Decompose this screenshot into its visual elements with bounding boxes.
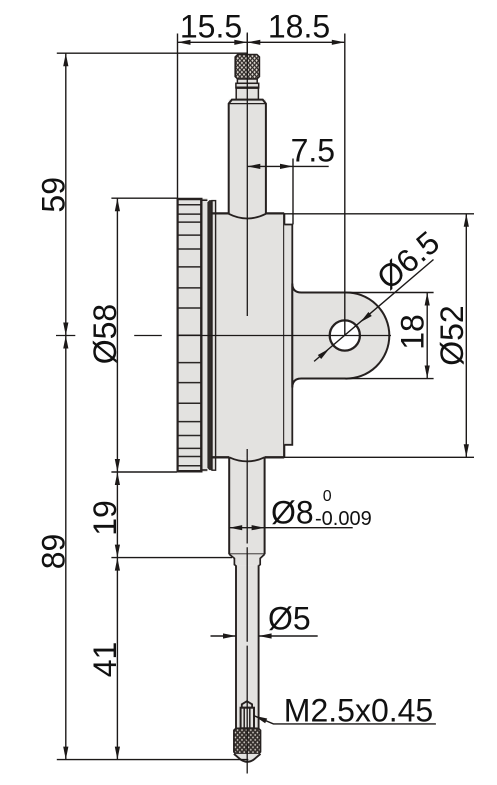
mounting lug with fillets xyxy=(292,284,389,388)
horizontal centerline xyxy=(56,335,391,337)
bezel dark rim strip xyxy=(207,200,212,470)
cap neck xyxy=(237,79,257,83)
svg-text:19: 19 xyxy=(87,500,123,536)
lug hole Ø6.5 xyxy=(330,320,360,350)
vertical centerline lower xyxy=(246,449,248,774)
svg-text:18: 18 xyxy=(395,314,431,350)
svg-text:M2.5x0.45: M2.5x0.45 xyxy=(284,693,433,729)
svg-text:Ø52: Ø52 xyxy=(434,305,470,365)
svg-text:7.5: 7.5 xyxy=(291,132,335,168)
svg-text:0: 0 xyxy=(323,488,332,505)
dial body (Ø52 case) xyxy=(213,213,284,457)
threaded stud body xyxy=(241,708,254,729)
serration lines xyxy=(178,205,201,466)
svg-text:41: 41 xyxy=(87,642,123,678)
threaded stud M2.5 chamfer tip xyxy=(242,701,252,708)
boss fillet arc at body top xyxy=(229,214,266,219)
svg-text:Ø5: Ø5 xyxy=(268,600,311,636)
contact point dome xyxy=(234,754,261,762)
vertical centerline upper xyxy=(246,33,248,317)
dimension 18 (lug) xyxy=(345,293,434,379)
svg-text:89: 89 xyxy=(35,534,71,570)
leader M2.5x0.45 xyxy=(254,716,436,724)
knurled contact holder xyxy=(234,728,261,754)
svg-text:18.5: 18.5 xyxy=(268,9,330,45)
dimension 59 / 89 (far left) xyxy=(57,53,248,759)
cap collar xyxy=(236,88,259,100)
bezel (knurled ring, side view) xyxy=(177,198,208,472)
dimension Ø5 xyxy=(211,635,318,637)
svg-text:Ø58: Ø58 xyxy=(87,304,123,364)
knurled cap (top) xyxy=(235,55,259,80)
cap ring xyxy=(236,83,259,88)
stem chamfer collar xyxy=(229,554,264,565)
upper stem (boss above body) xyxy=(229,100,266,219)
spindle (Ø5) xyxy=(234,565,260,728)
svg-text:59: 59 xyxy=(35,177,71,213)
dimension Ø52 (right) xyxy=(284,214,474,457)
svg-text:-0.009: -0.009 xyxy=(315,508,372,530)
body top and bottom edges xyxy=(212,213,284,457)
dimension 7.5 xyxy=(247,159,328,225)
svg-text:Ø8: Ø8 xyxy=(271,495,314,531)
boss fillet arc at body bottom xyxy=(229,457,264,461)
crystal plate xyxy=(212,201,216,471)
back plate xyxy=(284,225,292,445)
dimension Ø6.5 (diagonal leader) xyxy=(314,260,433,362)
svg-text:Ø6.5: Ø6.5 xyxy=(370,224,446,296)
svg-text:15.5: 15.5 xyxy=(180,9,242,45)
dimension Ø58 / 19 / 41 (left) xyxy=(57,198,249,759)
dimension 15.5 / 18.5 (top) xyxy=(178,34,345,336)
lower stem (Ø8) xyxy=(229,457,264,554)
dimension Ø8 with tolerance xyxy=(229,527,353,529)
